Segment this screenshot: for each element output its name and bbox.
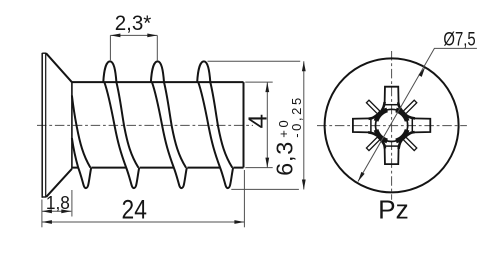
slot arm top — [385, 87, 399, 105]
thread 2 right flank — [164, 82, 186, 167]
dimension 1,8 extension line right — [71, 190, 73, 217]
shaft top edge — [72, 81, 244, 83]
svg-text:4: 4 — [242, 114, 272, 128]
screw head face inner line — [45, 53, 47, 197]
dimension 1,8 extension line left (shared with 24) — [41, 200, 43, 228]
pozidriv fillet junction NE — [398, 102, 415, 118]
leader arrow top-right — [418, 67, 425, 77]
dimension 4 line — [266, 82, 268, 168]
pozidriv fillet junction SE — [399, 132, 415, 149]
head cone top edge — [46, 53, 72, 82]
slot arm left — [353, 118, 371, 132]
svg-text:Ø7,5: Ø7,5 — [443, 28, 475, 50]
thread start at head (partial) right flank — [72, 96, 91, 168]
head bottom rim — [42, 196, 46, 198]
pozidriv fillet junction NW — [369, 102, 385, 119]
dimension 2,3* extension lines — [110, 35, 157, 60]
thread 3 right flank — [210, 82, 232, 167]
head top rim — [42, 52, 46, 54]
shaft bottom edge segments — [72, 167, 244, 169]
thread 1 left flank and bottom crest — [104, 82, 139, 188]
shaft end line — [243, 82, 245, 168]
dimension 6,3 arrows — [302, 61, 306, 71]
svg-text:6,3: 6,3 — [272, 141, 298, 176]
thread 1 top crest arch — [103, 61, 116, 82]
dimension 2,3* arrows — [110, 34, 120, 38]
leader arrow bottom-left — [358, 172, 365, 182]
screw head face outer line — [41, 53, 43, 198]
centerline of screw side view — [37, 124, 253, 126]
dimension 6,3 extension lines — [208, 61, 301, 189]
dimension 6,3 line — [303, 61, 305, 189]
pozidriv wedge NE — [396, 110, 407, 121]
pozidriv identification tick NE — [403, 100, 417, 114]
thread start at head (partial) left flank and bottom crest — [72, 138, 91, 188]
thread 3 top crest arch — [197, 61, 210, 82]
slot arm right — [412, 118, 430, 132]
dimension 1,8 arrows — [42, 209, 52, 213]
pozidriv central circle — [376, 109, 408, 141]
pozidriv slot arms — [353, 87, 430, 164]
pozidriv identification tick SE — [403, 137, 417, 151]
dimension 4 arrows — [265, 82, 269, 92]
pozidriv wedge SW — [376, 130, 387, 141]
dimension 24 arrows — [42, 220, 52, 224]
pozidriv identification tick SW — [366, 137, 380, 151]
dimension 1,8 line — [42, 210, 71, 212]
svg-text:-0,25: -0,25 — [289, 98, 304, 138]
pozidriv wedge NW — [376, 110, 387, 121]
svg-text:Pz: Pz — [378, 197, 409, 225]
dimension 2,3* line — [110, 34, 157, 36]
screw head outline circle — [325, 58, 459, 192]
front view horizontal centerline — [317, 125, 467, 127]
dimension 4 extension lines — [245, 82, 272, 168]
front view vertical centerline — [391, 51, 393, 200]
dimension 24 extension line right — [243, 170, 245, 227]
diameter leader line — [358, 48, 477, 181]
slot arm bottom — [385, 146, 399, 164]
svg-text:1,8: 1,8 — [46, 193, 70, 213]
pozidriv fillet junction SW — [368, 132, 385, 148]
svg-text:2,3*: 2,3* — [115, 12, 152, 35]
pozidriv wedge SE — [396, 130, 407, 141]
head cone bottom edge — [46, 169, 72, 197]
thread 2 left flank and bottom crest — [152, 82, 187, 188]
thread 1 right flank — [116, 82, 138, 167]
svg-text:24: 24 — [122, 194, 147, 224]
dimension 24 line — [42, 221, 245, 223]
head-shaft junction line — [71, 82, 73, 169]
pozidriv identification tick NW — [366, 100, 380, 114]
thread 2 top crest arch — [151, 61, 164, 82]
thread 3 left flank and bottom crest — [198, 82, 233, 188]
